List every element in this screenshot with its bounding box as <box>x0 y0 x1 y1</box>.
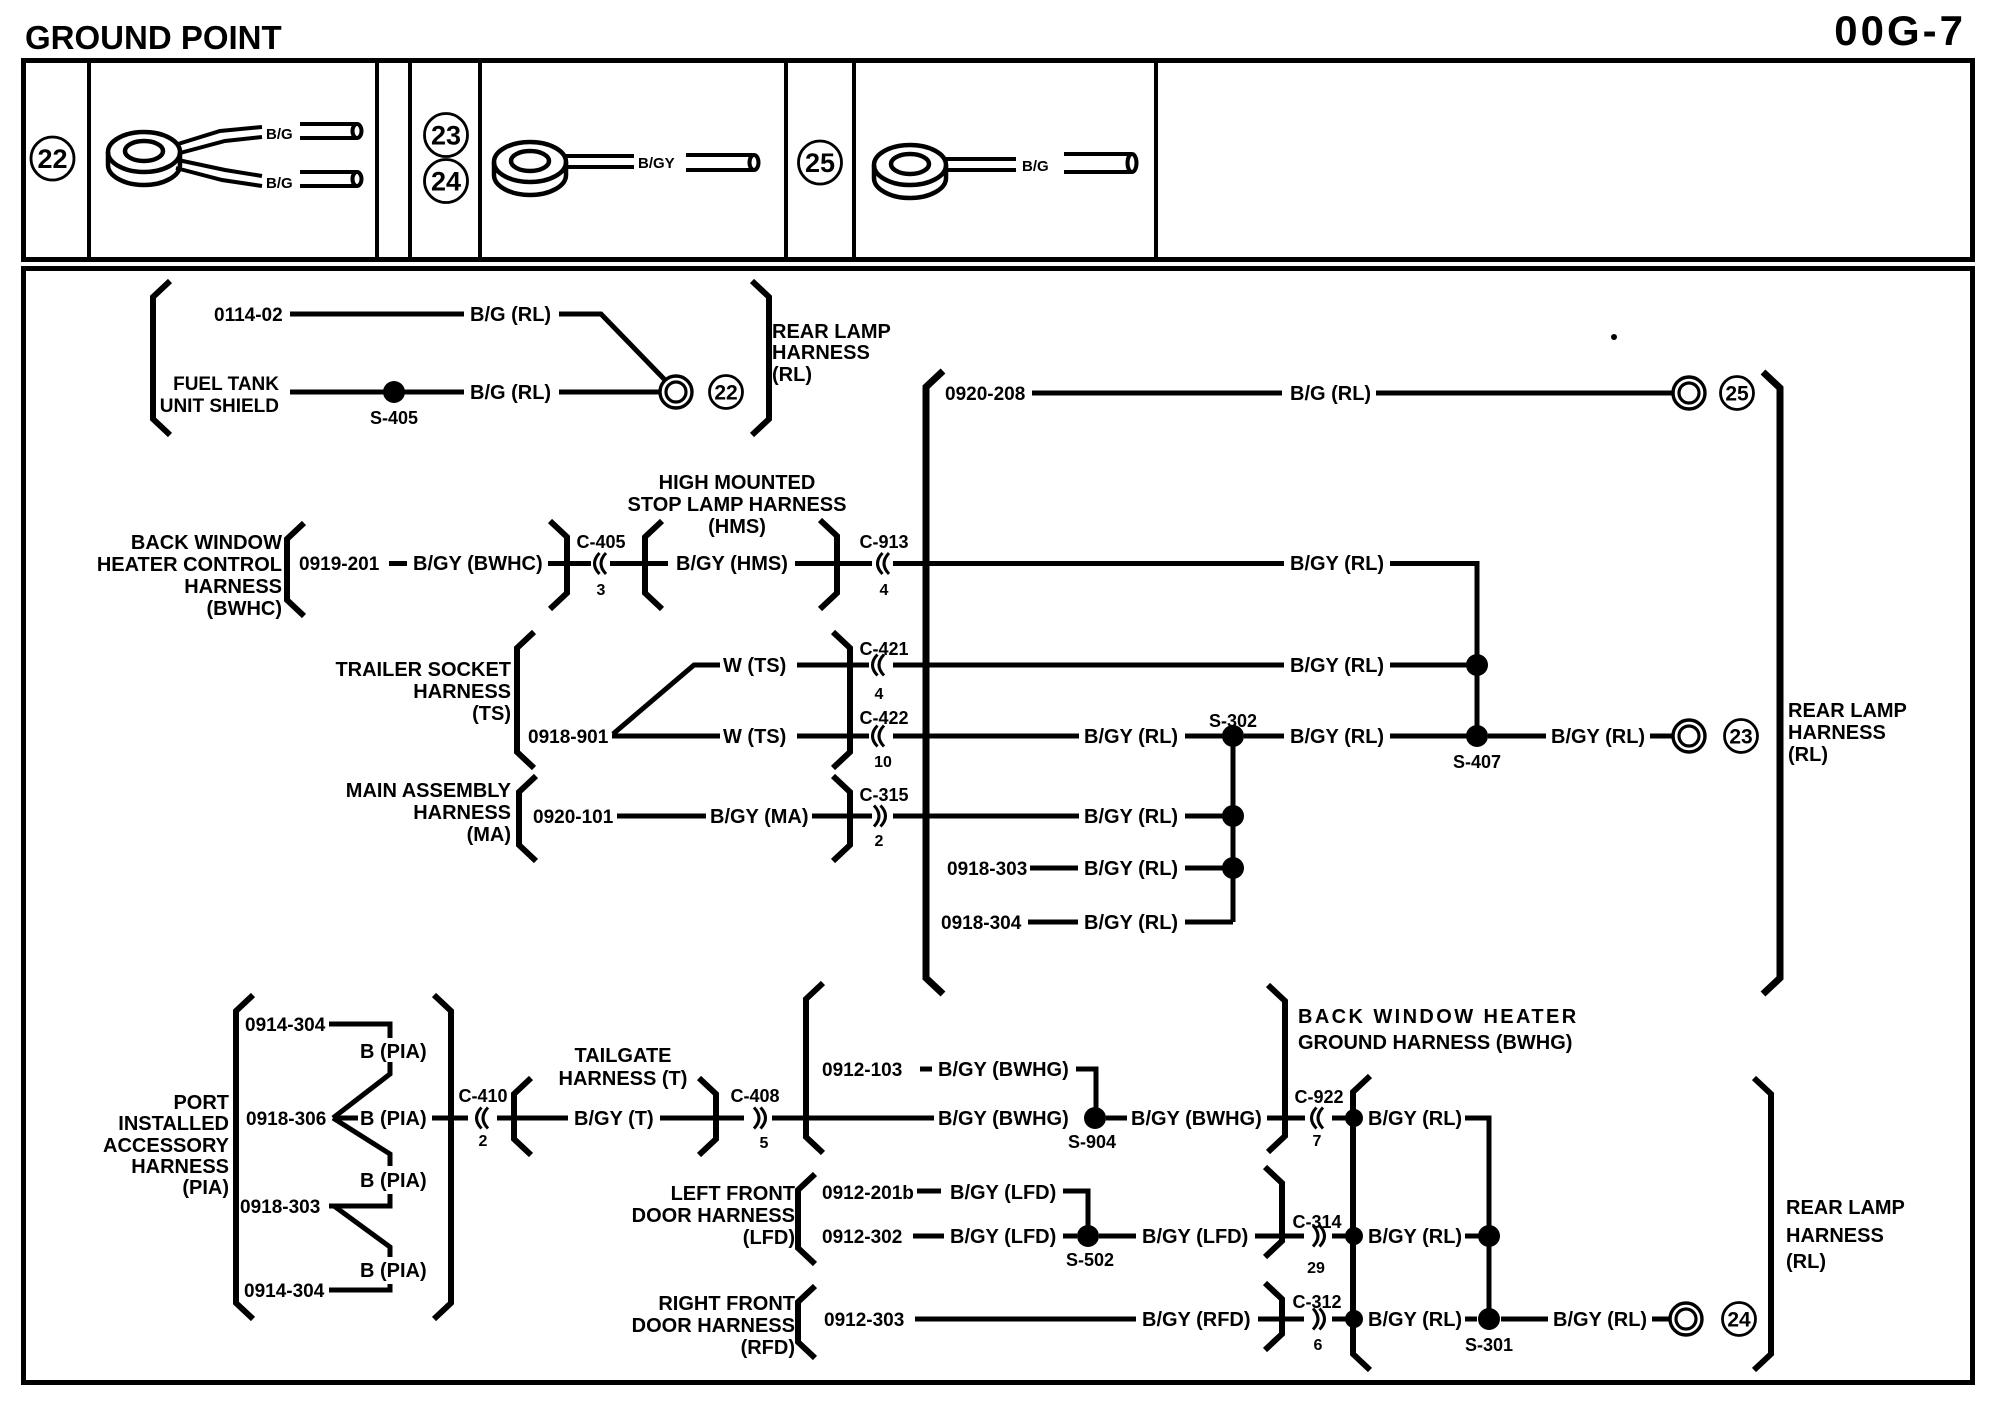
wire S-904 right <box>1106 1116 1127 1121</box>
svg-text:C-408: C-408 <box>730 1086 779 1106</box>
header legend band box <box>24 61 1973 260</box>
svg-text:00G-7: 00G-7 <box>1834 7 1966 54</box>
svg-text:4: 4 <box>875 686 884 703</box>
wire C-408 to B/GY (BWHG) <box>772 1116 934 1121</box>
svg-text:B/G (RL): B/G (RL) <box>470 382 551 404</box>
wire C-410 into tailgate group <box>497 1116 568 1121</box>
wire stub 0919-201 <box>389 561 407 566</box>
wire 0114-02 to B/G (RL) <box>290 312 464 317</box>
wire stub 0912-103 <box>920 1067 932 1072</box>
svg-text:C-312: C-312 <box>1292 1292 1341 1312</box>
bracket open PIA group <box>236 995 253 1319</box>
wire B/GY (RL) corner down to S-301 <box>1465 1118 1489 1319</box>
bracket open MA group <box>519 776 536 861</box>
wire 0918-306 row to connector C-410 <box>432 1116 468 1121</box>
svg-text:0918-304: 0918-304 <box>941 913 1022 934</box>
wire B/GY (RL) to junction on S-407 riser <box>1390 663 1471 668</box>
bracket open LFD group <box>798 1174 815 1264</box>
svg-text:TRAILER SOCKET: TRAILER SOCKET <box>335 659 511 681</box>
bracket open rear lamp harness RL mid group <box>926 371 943 994</box>
svg-text:HARNESS: HARNESS <box>131 1156 229 1178</box>
svg-text:(RL): (RL) <box>772 364 812 386</box>
svg-text:HEATER CONTROL: HEATER CONTROL <box>97 554 282 576</box>
svg-text:C-422: C-422 <box>859 708 908 728</box>
connector C-315 symbol <box>874 806 886 827</box>
svg-text:S-301: S-301 <box>1465 1335 1513 1355</box>
svg-text:10: 10 <box>874 754 892 771</box>
svg-text:(RL): (RL) <box>1788 744 1828 766</box>
svg-text:B/GY (HMS): B/GY (HMS) <box>676 553 788 575</box>
wire elbow left to 0914-304 bottom <box>329 1284 390 1290</box>
svg-text:HARNESS: HARNESS <box>184 576 282 598</box>
svg-text:0920-101: 0920-101 <box>533 807 614 828</box>
svg-text:TAILGATE: TAILGATE <box>574 1045 671 1067</box>
header divider line 4 <box>478 58 482 260</box>
svg-text:22: 22 <box>37 144 67 174</box>
svg-text:MAIN ASSEMBLY: MAIN ASSEMBLY <box>346 780 512 802</box>
wire B/GY (RL) elbow to riser row 0918-304 <box>1185 920 1233 925</box>
splice S-904 <box>1084 1107 1106 1129</box>
svg-text:B/GY (BWHG): B/GY (BWHG) <box>1131 1108 1262 1130</box>
header divider line 5 <box>784 58 788 260</box>
svg-text:REAR LAMP: REAR LAMP <box>772 321 891 343</box>
svg-text:0114-02: 0114-02 <box>214 305 283 326</box>
svg-text:B/G (RL): B/G (RL) <box>1290 383 1371 405</box>
wire B/GY (RL) corner down to S-407 <box>1390 564 1477 737</box>
svg-text:0912-303: 0912-303 <box>824 1310 904 1331</box>
bracket close LFD group <box>1265 1167 1282 1257</box>
svg-text:25: 25 <box>1725 383 1749 406</box>
svg-text:B (PIA): B (PIA) <box>360 1041 427 1063</box>
svg-text:C-410: C-410 <box>458 1086 507 1106</box>
svg-text:0912-103: 0912-103 <box>822 1060 902 1081</box>
svg-text:0918-901: 0918-901 <box>528 727 609 748</box>
wire B/GY (RL) to riser dot row 0918-303 <box>1185 866 1227 871</box>
wire C-315 to B/GY (RL) <box>893 814 1079 819</box>
stray print dot <box>1611 334 1617 340</box>
svg-text:REAR LAMP: REAR LAMP <box>1788 700 1907 722</box>
junction dot row C-315 <box>1222 805 1244 827</box>
ground ring symbol 24 <box>1670 1303 1702 1335</box>
header wire end tube upper 22 <box>300 124 362 138</box>
svg-text:B/GY (RL): B/GY (RL) <box>1368 1309 1462 1331</box>
header divider line 3 <box>408 58 412 260</box>
wire B/GY (HMS) to connector C-913 <box>795 561 872 566</box>
svg-text:(RL): (RL) <box>1786 1251 1826 1273</box>
svg-text:B/GY (LFD): B/GY (LFD) <box>950 1226 1056 1248</box>
svg-text:29: 29 <box>1307 1260 1325 1277</box>
svg-text:B/G: B/G <box>266 175 293 192</box>
header divider line 7 <box>1154 58 1158 260</box>
bracket close BWHC group <box>550 521 567 609</box>
svg-text:3: 3 <box>597 582 606 599</box>
svg-text:23: 23 <box>1729 726 1752 749</box>
header lug 22 upper wire line b <box>180 137 262 153</box>
wire C-422 to B/GY (RL) <box>893 734 1079 739</box>
circled ground ref 22 <box>710 376 743 409</box>
bracket open TS group <box>517 632 534 768</box>
wire W (TS) upper to connector C-421 <box>797 663 869 668</box>
splice S-405 <box>383 381 405 403</box>
svg-text:(PIA): (PIA) <box>182 1177 229 1199</box>
svg-text:GROUND POINT: GROUND POINT <box>25 19 282 56</box>
header lug 22 upper wire line a <box>178 127 262 144</box>
header ground lug icon 25 <box>874 145 946 198</box>
svg-text:UNIT SHIELD: UNIT SHIELD <box>160 396 279 417</box>
svg-text:(LFD): (LFD) <box>743 1227 795 1249</box>
wire B/GY (RL) to ground ring 23 <box>1650 734 1672 739</box>
wire C-922 to RL group <box>1332 1116 1352 1121</box>
svg-text:B/GY (RL): B/GY (RL) <box>1084 858 1178 880</box>
svg-text:7: 7 <box>1313 1133 1322 1150</box>
svg-text:BACK WINDOW HEATER: BACK WINDOW HEATER <box>1298 1006 1579 1028</box>
svg-text:(HMS): (HMS) <box>708 516 766 538</box>
header divider line 2 <box>375 58 379 260</box>
wire diagonal down from 0918-303 <box>334 1206 390 1257</box>
header ground lug icon 22 <box>108 132 180 185</box>
svg-text:0912-201b: 0912-201b <box>822 1183 914 1204</box>
wire node 0918-306 stub right <box>333 1116 358 1121</box>
wire B/GY (BWHC) to connector C-405 <box>548 561 591 566</box>
bracket open RL low group <box>1353 1076 1370 1370</box>
header wire end tube 23/24 <box>686 155 759 170</box>
wire 0912-201b elbow down to S-502 <box>1063 1191 1088 1236</box>
wire S-502 right <box>1099 1234 1136 1239</box>
splice S-302 <box>1222 725 1244 747</box>
wire B/GY (MA) to connector C-315 <box>812 814 872 819</box>
bracket open RFD group <box>798 1286 815 1358</box>
svg-text:DOOR HARNESS: DOOR HARNESS <box>632 1315 795 1337</box>
wire C-913 to B/GY (RL) <box>893 561 1284 566</box>
svg-text:0914-304: 0914-304 <box>244 1281 325 1302</box>
svg-text:(RFD): (RFD) <box>741 1337 795 1359</box>
wire stub 0912-302 <box>913 1234 944 1239</box>
svg-text:B/GY (T): B/GY (T) <box>574 1108 654 1130</box>
ground ring symbol 22 <box>660 376 692 408</box>
svg-text:HARNESS: HARNESS <box>1786 1225 1884 1247</box>
junction dot row 0918-303 <box>1222 857 1244 879</box>
svg-text:(TS): (TS) <box>472 703 511 725</box>
svg-text:B/GY: B/GY <box>638 155 675 172</box>
svg-text:B/GY (BWHG): B/GY (BWHG) <box>938 1059 1069 1081</box>
svg-text:B/GY (LFD): B/GY (LFD) <box>1142 1226 1248 1248</box>
wire W (TS) lower to connector C-422 <box>797 734 869 739</box>
header lug 25 wire line b <box>946 168 1016 172</box>
svg-text:B/GY (RL): B/GY (RL) <box>1551 726 1645 748</box>
junction dot RL bracket row C-922 <box>1345 1109 1363 1127</box>
header lug 22 lower wire line a <box>178 160 262 176</box>
circled ground ref 23 <box>1725 720 1758 753</box>
svg-text:HARNESS: HARNESS <box>772 342 870 364</box>
svg-text:B/GY (BWHC): B/GY (BWHC) <box>413 553 543 575</box>
svg-text:4: 4 <box>880 582 889 599</box>
header ground point ref 25 <box>799 141 842 184</box>
wire B/GY (LFD) to connector C-314 <box>1255 1234 1304 1239</box>
svg-text:0920-208: 0920-208 <box>945 384 1025 405</box>
connector C-913 symbol <box>878 553 890 574</box>
svg-text:STOP LAMP HARNESS: STOP LAMP HARNESS <box>628 494 847 516</box>
svg-text:DOOR HARNESS: DOOR HARNESS <box>632 1205 795 1227</box>
svg-text:0919-201: 0919-201 <box>299 554 380 575</box>
wire C-421 to B/GY (RL) <box>893 663 1284 668</box>
svg-text:B (PIA): B (PIA) <box>360 1170 427 1192</box>
bracket close HMS group <box>820 520 837 609</box>
svg-text:0918-303: 0918-303 <box>947 859 1027 880</box>
header lug 23/24 wire line a <box>566 154 634 158</box>
wire B/GY (RL) to S-302 <box>1185 734 1227 739</box>
connector C-405 symbol <box>595 553 607 574</box>
svg-text:C-315: C-315 <box>859 785 908 805</box>
svg-text:(MA): (MA) <box>467 824 511 846</box>
svg-text:B/G (RL): B/G (RL) <box>470 304 551 326</box>
wire 0912-103 elbow down to S-904 <box>1076 1069 1096 1118</box>
svg-text:0914-304: 0914-304 <box>245 1015 326 1036</box>
connector C-312 symbol <box>1313 1309 1325 1330</box>
wire fuel tank unit shield to B/G (RL) <box>290 390 464 395</box>
svg-text:HARNESS: HARNESS <box>413 802 511 824</box>
splice S-407 <box>1466 725 1488 747</box>
bracket open tailgate group <box>514 1078 531 1155</box>
bracket close RFD group <box>1265 1283 1282 1350</box>
svg-text:2: 2 <box>479 1133 488 1150</box>
svg-text:B/GY (RL): B/GY (RL) <box>1084 912 1178 934</box>
connector C-410 symbol <box>477 1108 489 1129</box>
wire C-314 to RL group <box>1332 1234 1352 1239</box>
svg-text:B/G: B/G <box>1022 158 1049 175</box>
wire B/GY (T) to connector C-408 <box>660 1116 744 1121</box>
wire 0912-303 to B/GY (RFD) <box>915 1317 1136 1322</box>
ground ring symbol 25 <box>1673 377 1705 409</box>
svg-text:FUEL TANK: FUEL TANK <box>173 374 279 395</box>
header divider line 6 <box>852 58 856 260</box>
circled ground ref 24 <box>1723 1303 1756 1336</box>
bracket close rear lamp harness group 22 <box>752 281 769 435</box>
svg-text:5: 5 <box>760 1135 769 1152</box>
bracket open rear lamp harness group 22 <box>153 281 170 435</box>
bracket close PIA group <box>434 995 451 1319</box>
header lug 22 lower wire line b <box>176 168 262 186</box>
svg-text:0918-306: 0918-306 <box>246 1109 326 1130</box>
header ground lug icon 23/24 <box>494 142 566 195</box>
svg-text:6: 6 <box>1314 1337 1323 1354</box>
header lug 25 wire line a <box>946 157 1016 161</box>
svg-text:S-502: S-502 <box>1066 1250 1114 1270</box>
header ground point ref 24 <box>425 160 468 203</box>
bracket close MA group <box>833 776 850 861</box>
circled ground ref 25 <box>1721 377 1754 410</box>
svg-text:S-405: S-405 <box>370 408 418 428</box>
svg-text:RIGHT FRONT: RIGHT FRONT <box>658 1293 795 1315</box>
svg-text:B/GY (RL): B/GY (RL) <box>1290 655 1384 677</box>
wire B/GY (RL) to S-301 riser dot <box>1465 1234 1483 1239</box>
junction dot RL bracket row C-312 <box>1345 1310 1363 1328</box>
wire 0920-101 to B/GY (MA) <box>617 814 706 819</box>
wire S-302 to B/GY (RL) <box>1244 734 1284 739</box>
bracket close tailgate group <box>699 1078 716 1155</box>
svg-text:B/GY (BWHG): B/GY (BWHG) <box>938 1108 1069 1130</box>
wire C-312 to RL group <box>1332 1317 1352 1322</box>
wire B/GY (RL) to S-407 <box>1390 734 1470 739</box>
svg-text:2: 2 <box>875 833 884 850</box>
svg-text:HARNESS: HARNESS <box>413 681 511 703</box>
wire S-301 to B/GY (RL) <box>1501 1317 1548 1322</box>
wire diagonal down to 0918-306 node <box>333 1062 390 1118</box>
splice S-301 <box>1478 1308 1500 1330</box>
connector C-922 symbol <box>1312 1108 1324 1129</box>
splice S-502 <box>1077 1225 1099 1247</box>
wire stub 0918-303 <box>1030 866 1078 871</box>
junction dot C-421 riser <box>1466 654 1488 676</box>
svg-text:BACK WINDOW: BACK WINDOW <box>131 532 282 554</box>
connector C-314 symbol <box>1313 1226 1325 1247</box>
wire B/G (RL) to ground ring 25 <box>1376 391 1672 396</box>
svg-text:B/G: B/G <box>266 126 293 143</box>
svg-text:24: 24 <box>431 167 461 197</box>
header wire end tube lower 22 <box>300 172 362 186</box>
header divider line 1 <box>87 58 91 260</box>
svg-text:HARNESS (T): HARNESS (T) <box>559 1068 688 1090</box>
bracket open HMS group <box>645 521 662 609</box>
wire B/GY (LFD) to S-502 <box>1063 1234 1077 1239</box>
svg-text:PORT: PORT <box>173 1092 229 1114</box>
wire B/GY (BWHG) to connector C-922 <box>1267 1116 1305 1121</box>
svg-text:B (PIA): B (PIA) <box>360 1108 427 1130</box>
svg-text:HIGH MOUNTED: HIGH MOUNTED <box>659 472 816 494</box>
connector C-408 symbol <box>754 1108 766 1129</box>
svg-text:B/GY (RL): B/GY (RL) <box>1290 553 1384 575</box>
wire S-407 to B/GY (RL) <box>1488 734 1546 739</box>
svg-text:C-913: C-913 <box>859 532 908 552</box>
connector C-422 symbol <box>873 726 885 747</box>
svg-text:INSTALLED: INSTALLED <box>118 1113 229 1135</box>
wire B/GY (RL) to riser dot row C-315 <box>1185 814 1227 819</box>
wire riser S-302 down to 0918-304 <box>1231 736 1236 922</box>
wire 0918-901 diagonal to upper W (TS) <box>613 665 720 734</box>
ground ring symbol 23 <box>1673 720 1705 752</box>
svg-text:S-407: S-407 <box>1453 752 1501 772</box>
header ground point ref 22 <box>31 137 74 180</box>
svg-text:B/GY (RL): B/GY (RL) <box>1368 1226 1462 1248</box>
svg-text:25: 25 <box>805 148 835 178</box>
svg-text:GROUND HARNESS (BWHG): GROUND HARNESS (BWHG) <box>1298 1032 1572 1054</box>
svg-text:C-405: C-405 <box>576 532 625 552</box>
wire stub 0912-201b <box>917 1189 941 1194</box>
wire B/G (RL) to ground 22 with diagonal <box>559 314 665 380</box>
header wire end tube 25 <box>1064 154 1137 172</box>
wire 0914-304 top elbow down <box>329 1024 390 1038</box>
bracket close BWHG group <box>1268 985 1285 1152</box>
svg-text:B/GY (RL): B/GY (RL) <box>1553 1309 1647 1331</box>
wire C-405 to HMS side <box>610 561 668 566</box>
svg-text:W (TS): W (TS) <box>723 655 786 677</box>
wire B/GY (RFD) to connector C-312 <box>1258 1317 1304 1322</box>
main diagram border box <box>24 269 1973 1383</box>
svg-text:B/GY (RL): B/GY (RL) <box>1084 726 1178 748</box>
wire diagonal down from 0918-306 node <box>333 1118 390 1166</box>
svg-text:LEFT FRONT: LEFT FRONT <box>671 1183 795 1205</box>
wire B/G (RL) to ground ring 22 <box>559 390 659 395</box>
svg-text:REAR LAMP: REAR LAMP <box>1786 1197 1905 1219</box>
svg-text:B/GY (RFD): B/GY (RFD) <box>1142 1309 1251 1331</box>
svg-text:B (PIA): B (PIA) <box>360 1260 427 1282</box>
svg-text:W (TS): W (TS) <box>723 726 786 748</box>
svg-text:B/GY (MA): B/GY (MA) <box>710 806 809 828</box>
svg-text:0918-303: 0918-303 <box>240 1197 320 1218</box>
svg-text:0912-302: 0912-302 <box>822 1227 902 1248</box>
connector C-421 symbol <box>873 655 885 676</box>
svg-text:23: 23 <box>431 121 461 151</box>
wire 0920-208 to B/G (RL) <box>1032 391 1282 396</box>
bracket close RL low group <box>1754 1078 1771 1370</box>
bracket open BWHC group <box>287 523 304 616</box>
svg-text:22: 22 <box>714 382 737 405</box>
svg-text:S-904: S-904 <box>1068 1132 1116 1152</box>
bracket close rear lamp harness RL mid group <box>1763 372 1780 994</box>
svg-text:HARNESS: HARNESS <box>1788 722 1886 744</box>
svg-text:24: 24 <box>1727 1309 1751 1332</box>
svg-text:(BWHC): (BWHC) <box>206 598 282 620</box>
svg-text:B/GY (RL): B/GY (RL) <box>1290 726 1384 748</box>
junction dot S-301 riser <box>1478 1225 1500 1247</box>
svg-text:B/GY (RL): B/GY (RL) <box>1368 1108 1462 1130</box>
bracket open BWHG group <box>806 983 823 1153</box>
junction dot RL bracket row C-314 <box>1345 1227 1363 1245</box>
wire B/GY (RL) to ground ring 24 <box>1652 1317 1669 1322</box>
header lug 23/24 wire line b <box>566 165 634 169</box>
header ground point ref 23 <box>425 114 468 157</box>
wire B/GY (RL) to S-301 <box>1465 1317 1477 1322</box>
wire 0918-901 to lower W (TS) <box>612 734 720 739</box>
wire stub 0918-304 <box>1028 920 1078 925</box>
bracket close TS group <box>833 632 850 768</box>
svg-text:C-922: C-922 <box>1294 1087 1343 1107</box>
svg-text:B/GY (LFD): B/GY (LFD) <box>950 1182 1056 1204</box>
svg-text:ACCESSORY: ACCESSORY <box>103 1135 230 1157</box>
wire elbow left to 0918-303 <box>329 1194 390 1206</box>
svg-text:B/GY (RL): B/GY (RL) <box>1084 806 1178 828</box>
